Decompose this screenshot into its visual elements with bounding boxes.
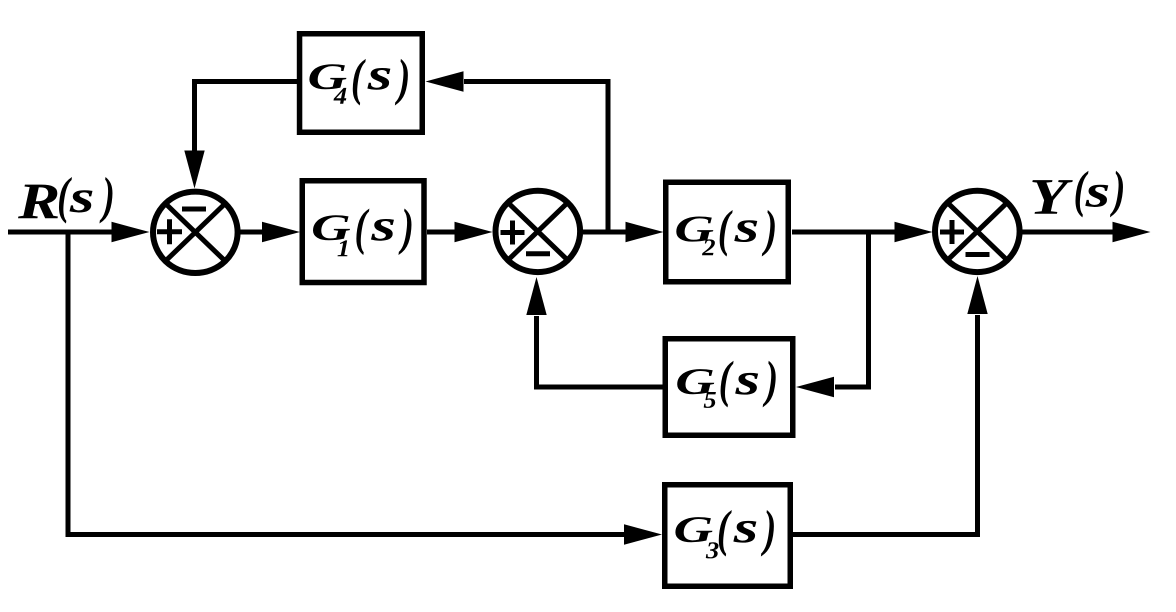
label G4(s) [309, 59, 407, 106]
block G4 [300, 34, 423, 133]
wire branch down from node after G2 to G5 [835, 232, 869, 387]
sum3 X cross [947, 203, 1007, 261]
sum2 plus sign [501, 221, 525, 245]
summing junction sum2 circle [496, 191, 581, 272]
wire G4 output to sum1 top [195, 82, 298, 152]
summing junction sum1 circle [153, 192, 238, 273]
sum2 X cross [508, 203, 568, 261]
sum1 X cross [165, 204, 225, 262]
wire sum1 to G1 [240, 230, 263, 235]
wire G5 output to sum2 bottom [537, 316, 664, 387]
arrowhead into sum3 bottom pointing up [967, 276, 987, 314]
arrowhead into sum1 top pointing down [184, 151, 204, 189]
block G5 [665, 339, 793, 436]
label G1(s) [313, 208, 411, 256]
arrowhead into sum2 bottom pointing up [526, 277, 546, 315]
label G2(s) [676, 210, 774, 257]
wire G2 to sum3 [792, 230, 896, 235]
block G3 [665, 485, 791, 587]
wire sum2 to G2 [583, 230, 626, 235]
summing junction sum3 circle [935, 191, 1020, 272]
arrowhead into sum3 left [895, 222, 933, 242]
arrowhead into sum2 left [455, 222, 493, 242]
label Y(s) [1032, 171, 1123, 218]
arrowhead into G3 left [624, 524, 662, 544]
block G1 [302, 181, 424, 283]
arrowhead into G5 right pointing left [796, 377, 834, 397]
arrowhead into G2 left [626, 222, 664, 242]
arrowhead into sum1 left [112, 222, 150, 242]
wire branch up from node after sum2 to G4 [464, 82, 608, 233]
label R(s) [18, 177, 112, 224]
label G5(s) [677, 361, 775, 408]
arrowhead into G4 right pointing left [426, 71, 464, 91]
sum3 plus sign [940, 220, 964, 244]
sum2 minus sign [526, 251, 550, 256]
sum1 minus sign [182, 207, 206, 212]
sum3 minus sign [966, 252, 990, 257]
sum1 plus sign [157, 219, 182, 244]
label G3(s) [675, 510, 773, 558]
block G2 [666, 182, 789, 282]
wire R(s) input [8, 230, 113, 235]
wire sum3 to Y(s) output [1022, 230, 1113, 235]
arrowhead at Y(s) output [1113, 222, 1151, 242]
arrowhead into G1 left [262, 222, 300, 242]
wire G1 to sum2 [427, 230, 456, 235]
wire branch from R(s) down and along bottom to G3 [68, 230, 624, 535]
wire G3 output to sum3 bottom [793, 315, 978, 535]
